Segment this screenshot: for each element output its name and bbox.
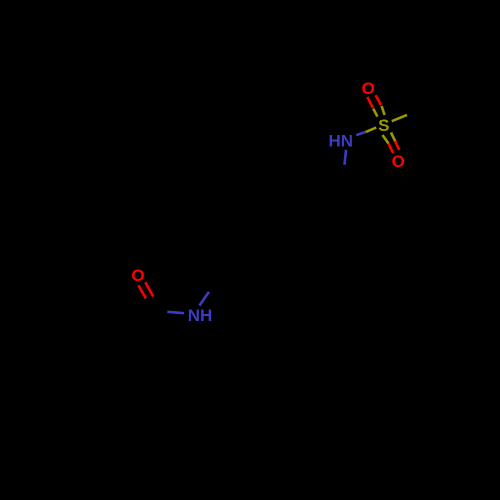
- wire S-CH3 bond (olive half): [392, 115, 407, 121]
- wire S=O lower double bond line 1 (olive half): [383, 135, 389, 144]
- wire N-CH2 bond (blue half, down): [345, 150, 347, 165]
- wire S=O upper double bond line 1 (red half): [367, 97, 373, 108]
- wire C-N bond (blue half): [167, 312, 184, 313]
- wire S=O lower double bond line 1 (red half): [389, 144, 394, 154]
- wire S=O lower double bond line 2 (olive half): [391, 133, 395, 142]
- svg-text:HN: HN: [329, 131, 354, 150]
- svg-text:O: O: [392, 152, 405, 171]
- wire S=O lower double bond line 2 (red half): [395, 141, 399, 150]
- wire S=O upper double bond line 2 (red half): [376, 95, 382, 105]
- wire C=O double bond (red half, line 2): [145, 282, 153, 296]
- wire N-S bond (olive half): [366, 128, 376, 132]
- wire N-S bond (blue half): [356, 132, 366, 135]
- svg-text:O: O: [362, 79, 375, 98]
- methanesulfonamide group CH3-SO2-NH: [329, 79, 407, 171]
- svg-text:O: O: [131, 266, 144, 285]
- wire S=O upper double bond line 2 (olive half): [382, 106, 385, 115]
- wire N-C bond (blue half, up-right): [199, 292, 209, 306]
- wire S=O upper double bond line 1 (olive half): [373, 109, 377, 117]
- svg-text:NH: NH: [188, 306, 213, 325]
- wire C=O double bond (red half, line 1): [138, 285, 146, 298]
- svg-text:S: S: [378, 116, 389, 135]
- amide group C(=O)NH: [131, 266, 212, 325]
